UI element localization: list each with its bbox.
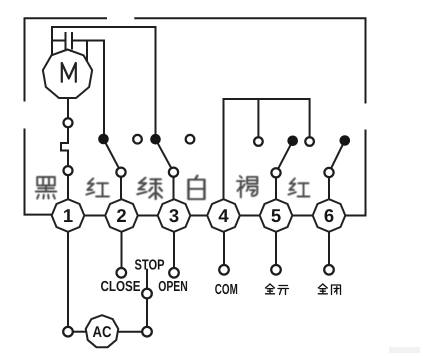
svg-text:5: 5 xyxy=(271,205,281,226)
svg-text:3: 3 xyxy=(169,205,179,226)
svg-text:2: 2 xyxy=(116,205,126,226)
svg-text:6: 6 xyxy=(324,205,334,226)
svg-text:CLOSE: CLOSE xyxy=(101,279,141,295)
svg-text:1: 1 xyxy=(63,205,73,226)
svg-text:4: 4 xyxy=(218,205,229,226)
svg-text:OPEN: OPEN xyxy=(158,279,188,295)
svg-text:AC: AC xyxy=(93,324,112,341)
svg-text:STOP: STOP xyxy=(135,258,165,274)
svg-text:COM: COM xyxy=(215,282,238,298)
